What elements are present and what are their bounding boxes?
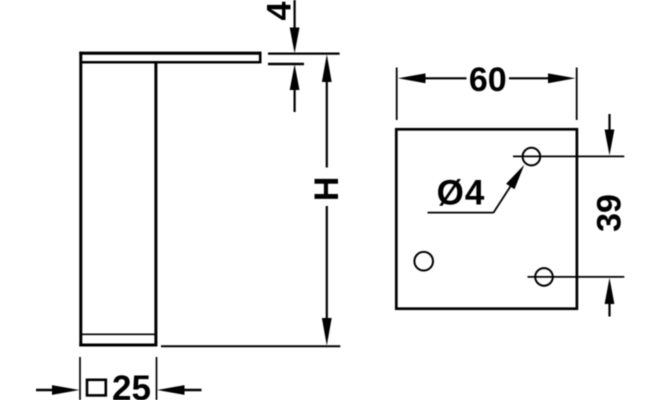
- plate right end: [259, 52, 262, 64]
- hole bottom right axis line: [528, 276, 625, 278]
- dim 60 ext line left: [396, 68, 398, 121]
- dim 60 left line: [424, 77, 467, 79]
- dim 4 lower line: [294, 89, 296, 112]
- hole top right axis line: [513, 155, 624, 157]
- dim H upper line: [326, 80, 328, 168]
- svg-text:25: 25: [112, 369, 151, 400]
- dim 25 left arrow shaft: [36, 389, 54, 391]
- dim 25 square symbol: [87, 380, 106, 396]
- hole left: [414, 252, 433, 271]
- dim H lower arrow: [322, 318, 332, 346]
- hole top right: [523, 148, 541, 166]
- dim 25 right arrow shaft: [183, 389, 202, 391]
- dim 60 right arrow: [548, 73, 575, 83]
- hole diameter leader arrow: [506, 165, 524, 189]
- svg-text:39: 39: [591, 194, 629, 232]
- leg bottom edge: [79, 344, 157, 347]
- dim 39 bottom arrow shaft: [608, 303, 610, 317]
- hole diameter leader line: [494, 178, 517, 213]
- leg left edge: [79, 52, 82, 347]
- dim 39 bottom arrow: [605, 278, 615, 304]
- dim 39 top arrow: [605, 130, 615, 156]
- leg foot line: [80, 333, 156, 335]
- dim H upper arrow: [322, 54, 332, 82]
- dim 25 ext line left: [79, 357, 81, 400]
- leg right edge: [154, 61, 157, 346]
- dim 60 ext line right: [576, 68, 578, 121]
- svg-text:60: 60: [469, 61, 507, 99]
- svg-text:Ø4: Ø4: [437, 174, 486, 213]
- plate bottom edge: [82, 61, 260, 64]
- dim H ext line bottom: [161, 345, 340, 347]
- dim 60 left arrow: [398, 73, 426, 83]
- dim 60 right line: [509, 77, 550, 79]
- dim 4 upper arrow: [290, 28, 300, 54]
- dim H lower line: [326, 206, 328, 320]
- dim 39 top arrow shaft: [608, 114, 610, 131]
- svg-text:4: 4: [261, 1, 299, 20]
- dim 25 right arrow: [157, 385, 184, 395]
- hole diameter label underline: [428, 212, 494, 214]
- dim 4 upper line: [294, 0, 296, 29]
- dim 4 lower arrow: [290, 64, 300, 90]
- plate top edge: [79, 52, 261, 55]
- dim 25 left arrow: [52, 385, 79, 395]
- hole bottom right: [535, 268, 553, 286]
- svg-text:H: H: [308, 177, 346, 202]
- mounting plate square: [396, 129, 577, 308]
- dim 4 ext line bottom: [268, 63, 304, 65]
- dim 25 ext line right: [156, 357, 158, 400]
- dim 4 ext line top: [268, 52, 340, 54]
